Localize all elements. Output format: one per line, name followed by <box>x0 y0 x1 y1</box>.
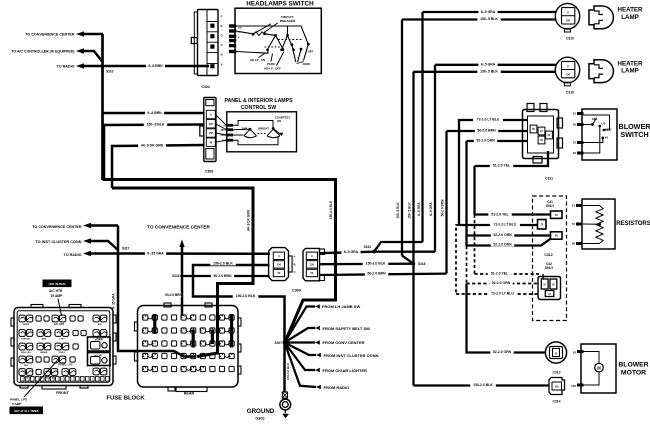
svg-text:A/C HTR: A/C HTR <box>54 322 65 326</box>
svg-text:150-.5 BLK: 150-.5 BLK <box>480 69 498 73</box>
svg-text:150: 150 <box>220 129 225 132</box>
svg-text:8-.35 GRA: 8-.35 GRA <box>147 251 164 255</box>
wire 50-2.0 BRN blower switch <box>447 130 529 132</box>
wire 51-2.0 YEL dashed to C42 <box>474 215 476 275</box>
splice S316 <box>180 274 183 277</box>
svg-text:72: 72 <box>572 222 576 226</box>
connector C310 heater lamp 1 body <box>555 3 579 29</box>
wire 150-.5 BLK to heater lamp 2 <box>414 71 561 73</box>
svg-text:CIRCUIT: CIRCUIT <box>281 15 294 19</box>
svg-text:MOTOR: MOTOR <box>621 369 646 376</box>
wire from radio <box>285 343 317 388</box>
svg-text:CONTROL SW: CONTROL SW <box>241 105 276 111</box>
svg-text:50-2.0 BRN: 50-2.0 BRN <box>477 129 496 133</box>
connector C314 body <box>549 378 565 395</box>
fuse block front accessory sockets <box>88 337 111 351</box>
dashed boundary box C312 <box>533 196 567 321</box>
svg-text:50: 50 <box>573 123 577 127</box>
wire 150-.5 BLK to heater lamp 1 <box>402 18 560 20</box>
connector C42 cells <box>541 279 548 289</box>
svg-text:D: D <box>221 33 223 37</box>
svg-text:150: 150 <box>566 74 571 77</box>
svg-text:52-2.0 ORN: 52-2.0 ORN <box>476 139 495 143</box>
connector C41 cell 72 <box>538 220 547 230</box>
svg-text:FROM LH JAMB SW: FROM LH JAMB SW <box>322 304 360 309</box>
svg-text:44-.8 DK GRN: 44-.8 DK GRN <box>247 209 251 230</box>
svg-text:150: 150 <box>566 20 571 23</box>
svg-text:150-2.0 BLK: 150-2.0 BLK <box>473 383 493 387</box>
svg-text:150-.5 BLK: 150-.5 BLK <box>408 202 412 219</box>
svg-text:52 2.0 ORN: 52 2.0 ORN <box>493 242 512 246</box>
connector C42 body <box>538 277 561 300</box>
svg-text:B: B <box>294 263 296 267</box>
wire from inst cluster conn <box>285 343 317 356</box>
wire to radio / 8 GRA line to C309 <box>91 252 270 255</box>
svg-text:FROM CIGAR LIGHTER: FROM CIGAR LIGHTER <box>323 368 368 373</box>
heater lamp 1 bulb symbol <box>589 6 613 29</box>
connector C41 cell 51 <box>551 211 563 218</box>
svg-text:LAMP: LAMP <box>621 14 639 21</box>
wire label 150-2.0 BLK (lower bus) <box>233 293 259 298</box>
fuse block front fuses row 5 <box>19 369 25 376</box>
wire label 9-.8 BRN <box>146 63 165 68</box>
panel lamps control switch pins <box>226 124 233 127</box>
svg-text:HOT IN RUN: HOT IN RUN <box>49 282 66 286</box>
svg-text:9-.8 BRN: 9-.8 BRN <box>148 64 163 68</box>
svg-text:OFF: OFF <box>308 50 314 54</box>
svg-text:ONLY: ONLY <box>545 266 554 270</box>
headlamps switch bottom rail <box>236 50 268 53</box>
resistor center tap from pin 72 <box>583 223 600 225</box>
svg-text:C304: C304 <box>201 85 209 89</box>
ground ring terminal <box>280 399 291 410</box>
svg-text:51: 51 <box>573 112 577 116</box>
svg-text:E: E <box>221 24 223 28</box>
svg-text:HD-LP - ON: HD-LP - ON <box>250 58 265 62</box>
svg-text:50 2.0 BRN: 50 2.0 BRN <box>214 274 232 278</box>
wire to inst cluster conn <box>91 241 118 250</box>
wire riser 8-.5 GRA heater lamp 2 <box>434 65 436 252</box>
wire to convenience center (top left) <box>84 33 103 36</box>
wire riser 51 YEL to C41 <box>473 166 475 215</box>
svg-text:MED: MED <box>605 128 611 132</box>
svg-text:8-.5 GRA: 8-.5 GRA <box>481 10 496 14</box>
control switch pin 44 wire and bottom rail <box>233 137 278 145</box>
svg-text:PANEL LPS: PANEL LPS <box>10 398 27 402</box>
svg-text:8-.5 GRA: 8-.5 GRA <box>429 202 433 216</box>
svg-text:52: 52 <box>573 151 577 155</box>
svg-text:50-2.0 BRN: 50-2.0 BRN <box>441 199 445 217</box>
svg-text:150: 150 <box>277 263 282 266</box>
svg-text:TO CONVENIENCE CENTER: TO CONVENIENCE CENTER <box>147 225 210 230</box>
svg-text:HEATER: HEATER <box>618 7 644 14</box>
wire label 50-2.0 BRN (beside S316 drop) <box>166 293 182 298</box>
svg-text:8-.5 GRA: 8-.5 GRA <box>417 202 421 216</box>
headlamps switch pins <box>229 24 236 27</box>
svg-text:M: M <box>597 365 601 370</box>
headlamps switch position labels <box>259 53 267 58</box>
blower motor M symbol <box>595 363 604 372</box>
svg-text:51: 51 <box>572 204 576 208</box>
svg-text:S310: S310 <box>106 70 114 74</box>
svg-text:150-2.0 BLK: 150-2.0 BLK <box>366 261 386 265</box>
svg-text:S316: S316 <box>172 274 180 278</box>
svg-text:25 AMP: 25 AMP <box>51 294 64 298</box>
svg-text:FROM RADIO: FROM RADIO <box>324 385 350 390</box>
wire 51-2.0 YEL to C41 <box>475 213 551 215</box>
headlamps switch wiper 1 <box>265 34 276 36</box>
wire 150-2.0 BLK from C309 to S318 <box>320 263 414 266</box>
fuse block front bottom terminal strip <box>21 377 25 382</box>
svg-text:FUSE BLOCK: FUSE BLOCK <box>106 395 145 401</box>
connector C308 cells 9 150 158 44 <box>206 110 215 118</box>
connector C309 right cells 9 150 50 <box>306 252 317 259</box>
resistors box <box>582 199 615 249</box>
svg-text:8-.5 GRA: 8-.5 GRA <box>481 63 496 67</box>
wire 50-2.0 BRN to C309 pin C <box>182 275 270 277</box>
splice S307 <box>283 341 287 345</box>
svg-text:C308: C308 <box>205 170 213 174</box>
headlamps switch box <box>235 8 321 73</box>
wire 150 BLK lamp1 drop joins S318 <box>402 256 414 264</box>
svg-text:150: 150 <box>571 384 576 388</box>
svg-text:S343: S343 <box>364 245 372 249</box>
wire from cigar lighter <box>285 343 316 371</box>
wires C308 to control switch pins <box>216 115 227 126</box>
svg-text:LAMP: LAMP <box>621 68 639 75</box>
connector C309 right half body <box>303 248 320 280</box>
svg-text:G302: G302 <box>255 417 264 421</box>
svg-text:S318: S318 <box>418 262 426 266</box>
svg-text:HD-LP - OFF: HD-LP - OFF <box>264 66 281 70</box>
circuit breaker element <box>236 31 253 34</box>
fuse block rear bus bars <box>153 314 156 334</box>
splice S343 <box>372 250 375 253</box>
wire riser 8-.5 GRA heater lamp 1 <box>421 12 423 242</box>
svg-text:ON: ON <box>277 119 281 123</box>
svg-text:A/C HTR: A/C HTR <box>49 289 63 293</box>
svg-text:C311: C311 <box>545 177 553 181</box>
svg-text:CTSY: CTSY <box>59 338 65 340</box>
connector C41 cell 50 <box>551 232 563 239</box>
fuse block front fuses row 4 <box>19 356 25 363</box>
fuse block front fuses row 2 <box>19 330 25 337</box>
heater lamp 2 bulb symbol <box>589 60 613 83</box>
fuse block rear outline <box>138 306 239 388</box>
svg-text:52-2.0 ORN: 52-2.0 ORN <box>492 281 511 285</box>
svg-text:ONLY: ONLY <box>546 204 555 208</box>
svg-text:150-.5 BLK: 150-.5 BLK <box>396 202 400 219</box>
svg-text:72-2.0 LT BLU: 72-2.0 LT BLU <box>491 292 514 296</box>
svg-text:C314: C314 <box>552 400 560 404</box>
svg-text:FRONT: FRONT <box>56 391 69 395</box>
svg-text:150: 150 <box>209 123 214 126</box>
wire 52-2.0 ORN to C41 <box>467 234 551 236</box>
blower motor box <box>581 344 616 393</box>
svg-text:51-2.0 YEL: 51-2.0 YEL <box>491 272 508 276</box>
wire 8-.5 GRA to heater lamp 2 <box>435 64 560 66</box>
svg-text:150-.8 BLK: 150-.8 BLK <box>147 123 165 127</box>
svg-text:RESISTORS: RESISTORS <box>616 221 650 227</box>
svg-text:TO RADIO: TO RADIO <box>64 253 82 257</box>
wire 150-2.0 BLK to blower motor ground <box>414 384 551 386</box>
svg-text:TO RADIO: TO RADIO <box>57 65 75 69</box>
svg-text:9-.8 BRN: 9-.8 BRN <box>147 111 162 115</box>
svg-text:72-1.0 LT BLU: 72-1.0 LT BLU <box>494 223 517 227</box>
svg-text:5 AMP: 5 AMP <box>12 402 21 406</box>
arrow to convenience center (up arrow from 50 BRN) <box>179 240 184 248</box>
headlamps switch park contacts (right) <box>290 43 293 46</box>
svg-text:HI: HI <box>605 136 608 140</box>
svg-text:TO CONVENIENCE CENTER: TO CONVENIENCE CENTER <box>25 33 75 37</box>
hot at all times tag <box>10 407 44 415</box>
headlamps switch contact OFF (right) <box>307 43 310 46</box>
svg-text:C: C <box>221 43 223 47</box>
wire from conv center <box>285 341 316 343</box>
svg-text:PANEL LPS: PANEL LPS <box>58 362 73 366</box>
headlamps switch wiper 2 <box>286 34 289 37</box>
svg-text:HEADLAMPS SWITCH: HEADLAMPS SWITCH <box>246 0 314 7</box>
wire 50 BRN vertical through S316 into fuse block <box>181 247 184 317</box>
svg-text:150: 150 <box>310 263 315 266</box>
wire 150-3.0 BLK to ground <box>283 343 286 393</box>
svg-text:8-.35 GRA: 8-.35 GRA <box>112 293 116 309</box>
resistors pins 51 72 50 <box>576 204 583 207</box>
svg-text:C310: C310 <box>566 37 574 41</box>
wire to radio / 9 BRN feed to C304 <box>84 65 209 68</box>
svg-text:FROM INST CLUSTER CONN: FROM INST CLUSTER CONN <box>324 353 379 358</box>
wire from safety belt sw <box>285 328 316 343</box>
svg-text:PARK: PARK <box>303 62 311 66</box>
hot in run tag <box>43 280 72 288</box>
wire riser 50-2.0 BRN blower switch feed <box>445 131 447 274</box>
wire label 8-.35 GRA (on line) <box>145 251 166 256</box>
wire 72-1.0 LT BLU to C41 <box>459 224 538 226</box>
wire to A/C controller <box>84 51 103 62</box>
ground symbol G302 <box>284 410 286 413</box>
wire 8-.5 GRA from C309 to S343 <box>320 252 375 254</box>
svg-text:HEATER: HEATER <box>618 60 644 67</box>
connector C304 pin contacts <box>210 24 214 28</box>
svg-text:C310: C310 <box>566 90 574 94</box>
wire 52-2.0 ORN to blower motor <box>467 284 547 353</box>
wire 72-2.0 LT BLU dashed to C42 <box>456 225 459 294</box>
circuit breaker callout lines <box>264 23 278 33</box>
wire 150 BLK horizontal bus to right <box>103 180 336 343</box>
wire 8 GRA riser to heater lamps <box>374 242 423 252</box>
connector C304 lock tab <box>191 38 197 44</box>
svg-text:8-.5 GRA: 8-.5 GRA <box>344 250 359 254</box>
svg-text:C312: C312 <box>544 253 552 257</box>
wire 50-2.0 BRN from C309 to blower switch riser <box>320 274 447 275</box>
wire 52-2.0 ORN dashed to C42 <box>466 246 468 284</box>
wire 9-.8 BRN to C308 pin 9 <box>103 112 205 115</box>
svg-text:C313: C313 <box>552 371 560 375</box>
connector C311 body <box>523 110 559 159</box>
svg-text:TURN B/U: TURN B/U <box>21 338 31 340</box>
wire 44-.8 DK GRN from C308 dimmer <box>112 145 204 188</box>
fuse block front fuses row 1 <box>19 315 25 322</box>
svg-text:PANEL & INTERIOR LAMPS: PANEL & INTERIOR LAMPS <box>224 98 293 104</box>
panel lamps control switch box <box>227 112 297 152</box>
svg-text:C309: C309 <box>292 289 301 293</box>
splice S318 <box>412 262 415 265</box>
svg-text:S307: S307 <box>275 341 283 345</box>
svg-text:50: 50 <box>572 242 576 246</box>
svg-text:WIPER: WIPER <box>23 324 30 326</box>
blower switch box <box>582 109 617 160</box>
svg-text:51-2.0 YEL: 51-2.0 YEL <box>491 212 508 216</box>
svg-text:TO CONVENIENCE CENTER: TO CONVENIENCE CENTER <box>32 225 82 229</box>
connector C308 lock tab <box>200 126 204 136</box>
wire 52-2.0 ORN blower switch <box>467 140 529 142</box>
svg-text:BLOWER: BLOWER <box>618 361 648 368</box>
svg-text:51-2.0 YEL: 51-2.0 YEL <box>493 164 510 168</box>
svg-text:52-2.0 ORN: 52-2.0 ORN <box>493 233 512 237</box>
svg-text:A: A <box>294 255 296 259</box>
fuse block front fuses row 3 <box>19 343 25 350</box>
svg-text:PWR-J: PWR-J <box>59 352 65 354</box>
fuse block front outline <box>14 308 113 386</box>
connector C304 body <box>198 10 219 76</box>
wire trunk vertical (9 BRN / 150 BLK) <box>101 34 104 180</box>
svg-text:WDO LKS: WDO LKS <box>21 352 31 354</box>
svg-text:44-.8 DK GRN: 44-.8 DK GRN <box>141 144 164 148</box>
resistor element R1/R2 zigzag <box>583 205 600 207</box>
blower motor internal wiring <box>583 352 599 364</box>
control switch pin 158 wire <box>233 134 244 136</box>
svg-text:150-.5 BLK: 150-.5 BLK <box>480 17 498 21</box>
connector C313 body <box>545 342 566 363</box>
svg-text:HOT AT ALL TIMES: HOT AT ALL TIMES <box>14 409 39 413</box>
connector C310 heater lamp 2 body <box>555 57 579 83</box>
svg-text:FROM SAFETY BELT SW: FROM SAFETY BELT SW <box>323 326 371 331</box>
svg-text:150: 150 <box>555 385 560 388</box>
svg-text:150-2.0 BLK: 150-2.0 BLK <box>213 261 233 265</box>
wire riser 150-.5 BLK heater lamp 1 <box>401 20 403 256</box>
svg-text:52: 52 <box>573 350 577 354</box>
svg-text:REAR: REAR <box>184 392 195 396</box>
svg-text:50-2.0 BRN: 50-2.0 BRN <box>367 272 386 276</box>
connector C311 cells 50 72 52 51 <box>530 125 537 133</box>
svg-text:TO INST CLUSTER CONN: TO INST CLUSTER CONN <box>35 240 81 244</box>
wire riser 52 ORN to resistors and blower motor <box>465 141 467 246</box>
control switch internal top rail <box>233 121 273 128</box>
wire 52-2.0 ORN second to C41 pin 50 <box>467 239 551 246</box>
svg-text:S317: S317 <box>122 247 130 251</box>
splice S317 <box>116 252 119 255</box>
svg-text:FROM CONV CENTER: FROM CONV CENTER <box>323 340 365 345</box>
connector C308 body <box>204 98 216 162</box>
wire riser 150-.5 BLK heater lamp 2 down to blower motor ground <box>412 72 414 386</box>
svg-text:AMS: AMS <box>42 337 47 340</box>
wire from LH jamb sw <box>285 307 316 343</box>
svg-text:IGN: IGN <box>24 377 28 379</box>
wire 8-.5 GRA to heater lamp 1 <box>423 11 561 13</box>
svg-text:150-2.0 BLK: 150-2.0 BLK <box>236 294 256 298</box>
blower motor pins 52 150 <box>577 350 584 353</box>
svg-text:BRIGHT: BRIGHT <box>258 126 269 130</box>
svg-text:150-2.0 BLK: 150-2.0 BLK <box>329 200 333 219</box>
svg-text:72: 72 <box>573 141 577 145</box>
wire 72-2.0 LT BLU blower switch <box>459 120 528 225</box>
connector C309 left half body <box>269 248 289 281</box>
wire 150-2.0 BLK from C309 pin B down to ground bus <box>193 265 285 342</box>
svg-text:BRAKE: BRAKE <box>40 351 48 354</box>
wire 44 DK GRN horizontal bus <box>112 188 253 357</box>
svg-text:B: B <box>221 52 223 56</box>
wire 150-.8 BLK from C308 <box>104 125 204 180</box>
svg-text:158: 158 <box>209 132 214 135</box>
wire 8-.35 GRA down to fuse block <box>118 226 196 357</box>
headlamps switch internal feed rail <box>236 26 308 44</box>
svg-text:150-3.0 BLK: 150-3.0 BLK <box>286 362 290 380</box>
svg-text:A: A <box>221 62 223 66</box>
fuse block rear cells <box>143 315 148 320</box>
wire to convenience center (mid left) <box>91 224 118 227</box>
svg-text:52-2.0 ORN: 52-2.0 ORN <box>493 350 512 354</box>
svg-text:C: C <box>294 270 296 274</box>
courtesy switch blade <box>272 127 275 130</box>
svg-text:50-2.0 BRN: 50-2.0 BRN <box>165 293 183 297</box>
svg-text:BREAKER: BREAKER <box>280 19 296 23</box>
rheostat wiper dashes <box>258 133 267 135</box>
wire 51-2.0 YEL blower switch <box>475 151 549 166</box>
svg-text:72-2.0 LT BLU: 72-2.0 LT BLU <box>477 118 500 122</box>
svg-text:TO A/C CONTROLLER (IF EQUIPPED: TO A/C CONTROLLER (IF EQUIPPED) <box>11 50 74 54</box>
svg-text:SWITCH: SWITCH <box>620 130 648 139</box>
blower switch pins 51 50 72 52 <box>577 112 584 115</box>
splice S310 <box>101 64 104 67</box>
ground terminal crimp <box>282 392 287 398</box>
connector C309 left cells 9 150 50 <box>273 252 284 259</box>
svg-text:GROUND: GROUND <box>247 408 275 415</box>
